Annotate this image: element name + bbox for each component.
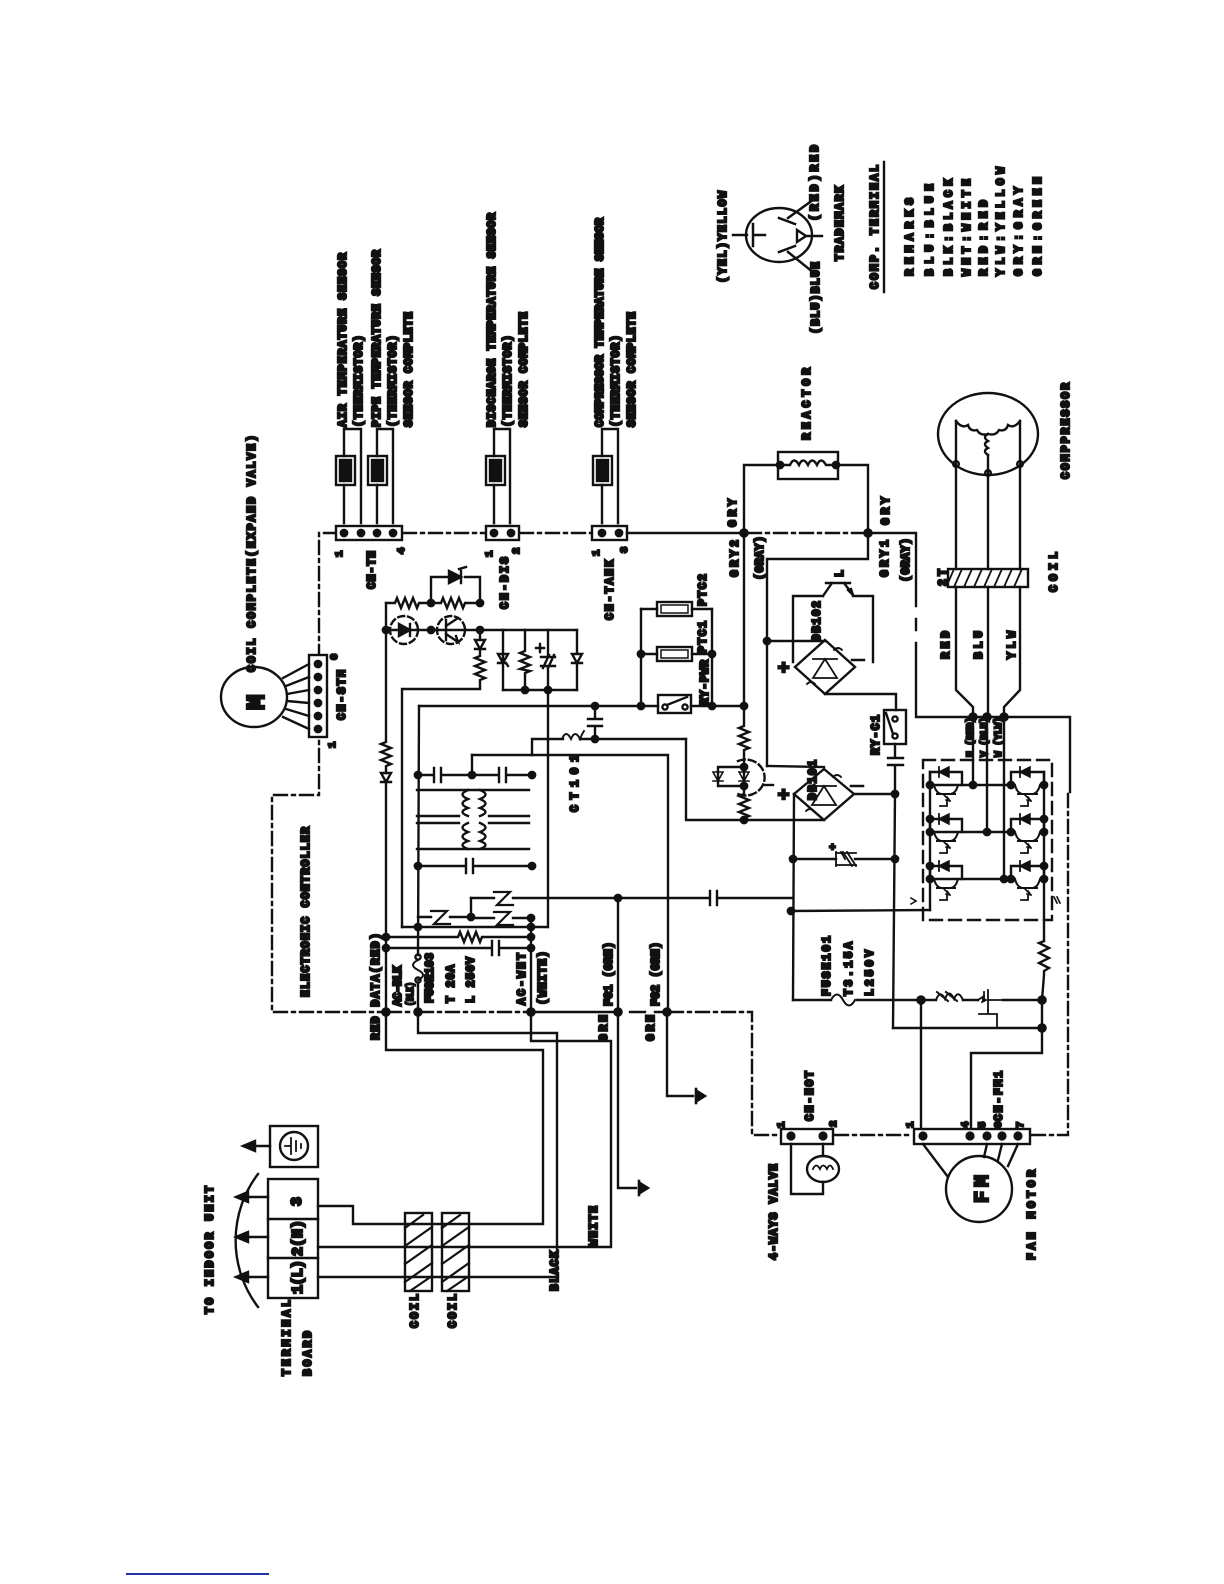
- svg-text:M: M: [242, 694, 272, 710]
- wire AC-WHT rail px531: [530, 918, 532, 1012]
- svg-text:L 250V: L 250V: [465, 957, 478, 1003]
- wire px472 down: [471, 755, 473, 775]
- capacitor row1 left: [418, 768, 472, 782]
- connector CN-TANK: [591, 526, 631, 620]
- svg-text:FUSE101: FUSE101: [821, 936, 834, 996]
- svg-text:TRADEMARK: TRADEMARK: [834, 186, 847, 261]
- fan motor FM: [923, 1144, 1039, 1260]
- connector CN-FM1: [905, 1071, 1030, 1144]
- svg-text:GRY: GRY: [880, 497, 893, 525]
- wire boundary top-left corner: [272, 533, 383, 1012]
- wire white line to 2(N): [318, 1012, 611, 1247]
- PTC thermistor PTC1: [641, 621, 712, 661]
- wire AC-BLK rail px418: [418, 706, 419, 955]
- svg-text:T 20A: T 20A: [445, 965, 458, 1003]
- resistor block branch2: [520, 630, 530, 690]
- wire boundary bottom row: [388, 1012, 779, 1135]
- svg-text:1: 1: [905, 1122, 917, 1128]
- wire PTC left rail: [640, 609, 642, 706]
- resistor R-top-1: [386, 598, 431, 608]
- wire GRY2 rail px744: [743, 533, 745, 706]
- wire DB101 minus to px895: [854, 793, 895, 795]
- inductor on py1000: [921, 999, 936, 1001]
- wire IPM left rail: [929, 772, 931, 910]
- svg-text:4-WAYS VALVE: 4-WAYS VALVE: [768, 1164, 781, 1260]
- svg-text:WHITE: WHITE: [588, 1206, 601, 1246]
- connector CN-TH: [334, 526, 408, 589]
- wire PTC right rail: [711, 609, 713, 706]
- wires coil to inverter funnel: [956, 587, 1020, 717]
- svg-text:2: 2: [511, 548, 523, 554]
- thermistor air temperature sensor: [336, 253, 366, 523]
- igbt V+: [930, 814, 962, 853]
- coil choke 2 (hatched): [442, 1213, 469, 1328]
- svg-text:FUSE103: FUSE103: [424, 953, 437, 1003]
- wire py927 rail: [402, 926, 547, 928]
- wire boundary top between CN-TH and CN-DIS: [403, 532, 485, 534]
- electronic controller dashed boundary: [272, 533, 1068, 1135]
- wire DC rail px547: [547, 690, 549, 927]
- fuse FUSE103: [415, 954, 420, 959]
- svg-text:SENSOR COMPLETE: SENSOR COMPLETE: [518, 312, 531, 427]
- wire IPM row U: [930, 784, 1011, 786]
- diode D2 on px480: [475, 630, 485, 649]
- optocoupler diode pack (dash arc): [718, 767, 744, 786]
- svg-text:WHT:WHITE: WHT:WHITE: [961, 179, 974, 276]
- connector CN-STM: [309, 654, 349, 748]
- svg-text:3: 3: [619, 547, 631, 553]
- transformer T101: [417, 790, 529, 849]
- svg-text:BLU: BLU: [973, 631, 986, 659]
- wire to DB102 AC input: [767, 640, 825, 642]
- svg-text:AC-BLK: AC-BLK: [392, 966, 405, 1006]
- svg-text:GRN: GRN: [598, 1015, 611, 1041]
- svg-text:COIL COMPLETE(EXPAND VALVE): COIL COMPLETE(EXPAND VALVE): [246, 435, 259, 672]
- svg-text:(THERMISTOR): (THERMISTOR): [502, 335, 515, 427]
- svg-text:YLW: YLW: [1006, 631, 1019, 659]
- svg-text:(BLK): (BLK): [405, 982, 417, 1006]
- relay RY-C1: [870, 710, 906, 755]
- node IPM module dashed box: [923, 760, 1052, 920]
- comp terminal circle: [733, 197, 822, 273]
- tiny marks near IPM: [911, 897, 1060, 904]
- svg-text:PTC2: PTC2: [697, 574, 710, 606]
- wire py630 rail: [386, 603, 577, 630]
- resistor R5 on px386: [381, 630, 391, 773]
- wire CN-TANK pin3 to GRY2 junction: [627, 532, 744, 534]
- wires phase into IPM: [973, 717, 1004, 879]
- svg-text:2(N): 2(N): [290, 1220, 307, 1256]
- svg-text:FG2 (GRN): FG2 (GRN): [650, 942, 663, 1006]
- wire GRY1 to U node: [868, 533, 1004, 717]
- electrolytic capacitor DC bus: [793, 858, 895, 860]
- wire IPM row W: [930, 878, 1011, 880]
- igbt W+: [930, 861, 962, 900]
- resistor row py937: [385, 932, 531, 942]
- svg-text:2: 2: [828, 1121, 840, 1127]
- svg-text:PIPE TEMPERATURE SENSOR: PIPE TEMPERATURE SENSOR: [371, 250, 384, 427]
- wire boundary right of CN-FM1: [1032, 792, 1068, 1135]
- ground FG2: [695, 1089, 698, 1103]
- resistor R-top-2: [431, 598, 480, 608]
- svg-text:V (BLU): V (BLU): [979, 717, 991, 757]
- svg-text:(THERMISTOR): (THERMISTOR): [387, 335, 400, 427]
- fuse FUSE101: [793, 999, 831, 1001]
- resistor below IPM: [1039, 941, 1049, 1000]
- svg-text:(WHITE): (WHITE): [537, 951, 550, 1005]
- compressor: [938, 383, 1073, 479]
- wire DB102 bottom to RY-C1: [825, 694, 896, 710]
- junction dots bottom row: [382, 1008, 389, 1015]
- svg-text:1(L): 1(L): [290, 1260, 307, 1294]
- PTC thermistor PTC2: [641, 574, 712, 616]
- bridge rectifier DB101: [774, 760, 863, 820]
- wire to CN-FM1 pin1: [920, 1000, 922, 1129]
- svg-text:4: 4: [960, 1122, 972, 1128]
- wire py739 w/ CT winding: [532, 739, 686, 755]
- svg-text:4: 4: [396, 548, 408, 554]
- capacitor row py948: [385, 941, 531, 955]
- svg-text:FAN MOTOR: FAN MOTOR: [1026, 1170, 1039, 1260]
- motor M expand valve: [221, 435, 287, 727]
- MOSFET: [978, 990, 1003, 1028]
- resistor on px744 upper: [739, 706, 749, 767]
- diode D5 on px386: [381, 773, 391, 1012]
- wire AC-WHT to FG1 solid segment: [531, 1011, 667, 1013]
- bridge rectifier DB102: [774, 601, 864, 694]
- svg-text:RED: RED: [940, 631, 953, 659]
- wire DB101 AC top: [767, 766, 824, 767]
- svg-text:BLACK: BLACK: [549, 1251, 562, 1291]
- resistor R3 vertical px480: [402, 649, 485, 927]
- svg-text:BLK:BLACK: BLK:BLACK: [943, 179, 956, 276]
- svg-text:RY-PWR: RY-PWR: [699, 660, 712, 705]
- svg-text:ELECTRONIC CONTROLLER: ELECTRONIC CONTROLLER: [300, 827, 313, 997]
- thermistor compressor temperature sensor: [593, 218, 639, 523]
- capacitor below RY-C1: [888, 744, 903, 794]
- thermistor discharge temperature sensor: [486, 213, 531, 523]
- optocoupler LED (dash circle): [390, 616, 418, 644]
- svg-text:CN-TANK: CN-TANK: [604, 560, 617, 620]
- wire boundary between GRY2 and GRY1 junctions: [748, 532, 864, 534]
- coil choke 1 (hatched): [405, 1213, 432, 1328]
- wire DC minus rail px895: [893, 794, 895, 1028]
- svg-text:7: 7: [1015, 1122, 1027, 1128]
- wire motor to CN-STM fan: [283, 664, 309, 729]
- svg-text:(YEL)YELLOW: (YEL)YELLOW: [717, 191, 730, 283]
- connector CN-DIS: [484, 526, 523, 609]
- svg-text:6: 6: [329, 654, 341, 660]
- wire boundary between CN-HOT and CN-FM1: [835, 1134, 912, 1136]
- svg-text:(THERMISTOR): (THERMISTOR): [353, 335, 366, 427]
- arrows to indoor unit: [204, 1174, 268, 1314]
- svg-text:GRN: GRN: [645, 1015, 658, 1041]
- wire FG2 to ground: [667, 1012, 693, 1096]
- wire reactor right to GRY1: [836, 465, 868, 533]
- capacitor row1 right: [472, 768, 532, 782]
- svg-text:GRY: GRY: [727, 499, 740, 527]
- wire W node to right dashed rail: [1004, 717, 1070, 792]
- svg-text:1: 1: [334, 551, 346, 557]
- svg-text:+: +: [828, 844, 840, 850]
- 4-ways valve coil: [768, 1144, 839, 1260]
- capacitor on upper Z row: [618, 891, 792, 905]
- reactor: [777, 368, 839, 479]
- wire py755 rail to FG2: [472, 755, 668, 1012]
- wires compressor to coil: [956, 466, 1020, 569]
- wire boundary top between CN-DIS and CN-TANK: [520, 532, 591, 534]
- svg-text:COMPPRESSOR: COMPPRESSOR: [1060, 383, 1073, 479]
- ground FG1: [638, 1181, 641, 1195]
- surge absorber Z row lower: [418, 898, 531, 918]
- svg-text:(GRAY): (GRAY): [754, 536, 767, 580]
- svg-text:RY-C1: RY-C1: [870, 715, 883, 755]
- optocoupler phototransistor (dash circle): [437, 616, 465, 644]
- svg-text:5: 5: [977, 1122, 989, 1128]
- wire terminal3 data line: [318, 1012, 543, 1224]
- svg-text:1: 1: [591, 550, 603, 556]
- wire DB101 plus rail px793: [793, 794, 794, 1000]
- wire reactor left to GRY2: [744, 465, 780, 533]
- svg-text:1: 1: [776, 1122, 788, 1128]
- diode D-top loop: [431, 577, 480, 603]
- wire GRY1 jog to bridges: [767, 533, 868, 766]
- svg-text:CN-TH: CN-TH: [366, 551, 379, 589]
- svg-text:COMPRESSOR TEMPERATURE SENSOR: COMPRESSOR TEMPERATURE SENSOR: [594, 218, 607, 427]
- wire FG1: [618, 898, 636, 1188]
- svg-text:SENSOR COMPLETE: SENSOR COMPLETE: [626, 312, 639, 427]
- svg-text:FG1 (GRN): FG1 (GRN): [603, 942, 616, 1006]
- svg-text:SENSOR COMPLETE: SENSOR COMPLETE: [403, 312, 416, 427]
- svg-text:DISCHARGE TEMPERATURE SENSOR: DISCHARGE TEMPERATURE SENSOR: [486, 213, 499, 427]
- capacitor C-ct: [588, 706, 602, 739]
- wire block bottom: [503, 689, 577, 691]
- terminal board: [268, 1179, 318, 1376]
- svg-text:RED DATA(RED): RED DATA(RED): [370, 933, 383, 1040]
- zener block branch1: [498, 630, 508, 690]
- relay RY-PWR: [658, 660, 712, 713]
- svg-text:BOARD: BOARD: [302, 1331, 315, 1376]
- svg-text:3: 3: [289, 1197, 306, 1206]
- coil 2T (hatched): [937, 552, 1061, 592]
- svg-text:1: 1: [484, 551, 496, 557]
- ground terminal box: [243, 1126, 318, 1167]
- wire py1028 rail: [893, 1000, 1042, 1028]
- wire to CN-FM1 pin4: [971, 1028, 1042, 1129]
- svg-text:+: +: [774, 662, 796, 673]
- svg-text:L: L: [834, 570, 847, 577]
- wire IPM left rail feed: [791, 910, 930, 911]
- svg-text:(GRAY): (GRAY): [900, 538, 913, 582]
- thermistor pipe temperature sensor: [368, 250, 416, 523]
- svg-text:+: +: [774, 789, 796, 800]
- svg-text:GRN:GREEN: GRN:GREEN: [1032, 177, 1045, 276]
- svg-text:(BLU)BLUE: (BLU)BLUE: [810, 262, 823, 334]
- capacitor row2: [418, 859, 532, 873]
- surge absorber Z row upper: [471, 897, 618, 899]
- svg-text:(THERMISTOR): (THERMISTOR): [610, 335, 623, 427]
- wire IPM row V: [930, 831, 1011, 833]
- svg-text:AIR TEMPERATURE SENSOR: AIR TEMPERATURE SENSOR: [337, 253, 350, 427]
- wire black line to 1(L): [318, 1012, 557, 1277]
- resistor on px744 lower: [739, 786, 749, 820]
- igbt U+: [930, 767, 962, 806]
- diode block branch4: [572, 630, 582, 690]
- wire IPM right rail: [1043, 772, 1045, 941]
- svg-text:PTC1: PTC1: [697, 621, 710, 653]
- igbt U-: [1011, 767, 1044, 806]
- power device on DB102: [793, 570, 873, 662]
- svg-text:6: 6: [993, 1122, 1005, 1128]
- svg-text:1: 1: [327, 742, 339, 748]
- igbt W-: [1011, 861, 1044, 900]
- varistor block branch3: [541, 630, 555, 690]
- svg-text:DB102: DB102: [811, 601, 824, 641]
- svg-text:U (RED): U (RED): [965, 717, 977, 757]
- igbt V-: [1011, 814, 1044, 853]
- connector CN-HOT: [776, 1071, 840, 1144]
- wire py706 rail: [419, 705, 744, 707]
- wire AC line py820: [686, 739, 824, 820]
- footer line: [127, 1573, 268, 1575]
